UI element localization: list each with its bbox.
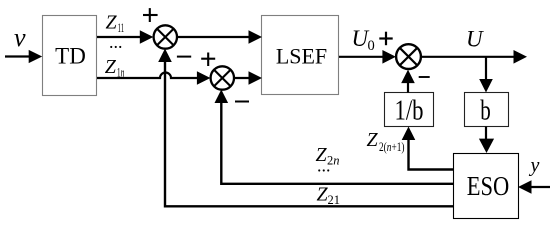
wire LSEF to summing junction S3 (U0) bbox=[339, 50, 396, 64]
block TD bbox=[43, 16, 97, 96]
svg-text:b: b bbox=[480, 96, 491, 127]
minus sign at S1 bbox=[177, 56, 191, 58]
plus sign at S2 bbox=[201, 53, 215, 67]
plus sign at S3 bbox=[379, 32, 392, 46]
summing junction S3 bbox=[396, 44, 421, 69]
summing junction S1 bbox=[154, 25, 177, 48]
svg-text:...: ... bbox=[317, 156, 331, 176]
svg-text:1/b: 1/b bbox=[395, 96, 424, 127]
block 1/b bbox=[385, 93, 434, 127]
svg-text:Z: Z bbox=[106, 11, 118, 33]
node Z2n label bbox=[316, 144, 340, 167]
wire y input into ESO bbox=[518, 180, 550, 194]
wire S1 to LSEF bbox=[177, 30, 262, 44]
svg-text:1n: 1n bbox=[117, 65, 125, 79]
wire b to ESO bbox=[479, 127, 494, 154]
block LSEF bbox=[262, 16, 339, 95]
svg-text:y: y bbox=[529, 155, 540, 177]
wire ESO feedback Z21 to S1 bbox=[158, 49, 453, 207]
svg-text:U: U bbox=[466, 27, 484, 52]
wire S2 to LSEF bbox=[234, 71, 262, 85]
svg-text:...: ... bbox=[109, 32, 123, 52]
svg-text:Z: Z bbox=[367, 129, 379, 151]
wire ESO feedback Z2n to S2 bbox=[215, 90, 454, 184]
minus sign at S3 bbox=[419, 76, 430, 78]
wire ESO to 1/b (Z2(n+1)) bbox=[402, 127, 454, 170]
svg-text:v: v bbox=[14, 23, 26, 52]
svg-text:0: 0 bbox=[368, 38, 375, 54]
svg-text:2(n+1): 2(n+1) bbox=[379, 140, 405, 154]
node Z2(n+1) label bbox=[367, 129, 405, 154]
wire TD to summing junction S1 (Z11) bbox=[97, 30, 153, 44]
node Z1n label bbox=[105, 56, 125, 79]
block b bbox=[465, 93, 509, 127]
wire v input bbox=[5, 50, 42, 63]
node Z11 label bbox=[106, 11, 125, 35]
block ESO bbox=[454, 154, 519, 219]
svg-text:LSEF: LSEF bbox=[276, 44, 327, 69]
wire TD to summing junction S2 (Z1n) with hop over vertical bbox=[97, 71, 210, 85]
svg-text:21: 21 bbox=[328, 193, 341, 207]
node U0 label bbox=[352, 26, 375, 54]
wire branch from U down into block b bbox=[479, 57, 493, 93]
minus sign at S2 bbox=[235, 101, 249, 103]
svg-text:Z: Z bbox=[105, 56, 117, 78]
svg-text:TD: TD bbox=[55, 44, 86, 69]
wire 1/b up to S3 minus input bbox=[401, 70, 415, 93]
wire S3 to output U bbox=[421, 50, 527, 64]
plus sign at S1 bbox=[143, 8, 158, 22]
svg-text:ESO: ESO bbox=[467, 171, 510, 201]
summing junction S2 bbox=[211, 66, 234, 89]
node Z21 label bbox=[317, 184, 341, 208]
